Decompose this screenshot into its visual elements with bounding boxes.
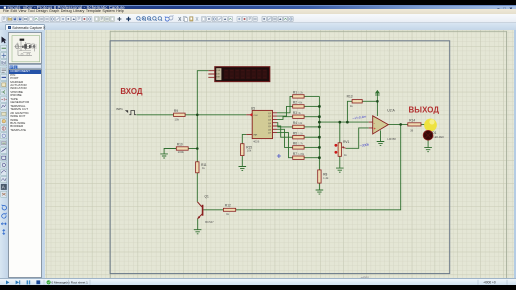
svg-text:1.4k: 1.4k bbox=[323, 176, 329, 180]
wire R3 to summing bus bbox=[304, 115, 319, 117]
transistor Q1 bbox=[197, 194, 214, 223]
ground under R10 bbox=[160, 153, 168, 157]
ground under op-amp bbox=[376, 141, 384, 145]
schematic edit canvas bbox=[45, 30, 516, 279]
resistor R5 bbox=[292, 131, 303, 138]
wire U5 out3 to R3 bbox=[277, 116, 293, 119]
junction bus R4 bbox=[317, 125, 320, 128]
svg-text:R10: R10 bbox=[176, 142, 182, 146]
ground under RV1 bbox=[335, 168, 343, 172]
svg-text:R12: R12 bbox=[224, 203, 230, 207]
paper edge bbox=[110, 31, 506, 279]
svg-text:U2:A: U2:A bbox=[387, 108, 395, 112]
svg-text:ВХОД: ВХОД bbox=[120, 86, 142, 95]
junction bus R5 bbox=[317, 135, 320, 138]
resistor R12 bbox=[223, 203, 235, 215]
junction input node bbox=[196, 113, 199, 116]
svg-text:R4: R4 bbox=[292, 121, 296, 125]
wire summing node to op-amp inverting input bbox=[319, 121, 368, 123]
ground under R8 bbox=[315, 190, 323, 194]
svg-text:A: A bbox=[2, 184, 5, 189]
wire op-amp output bbox=[388, 123, 407, 125]
wire summing bus vertical bbox=[318, 96, 320, 169]
IC U5 bbox=[246, 106, 277, 143]
ground under R15 bbox=[238, 166, 246, 170]
wire R2 to summing bus bbox=[304, 105, 319, 107]
svg-text:R14: R14 bbox=[409, 118, 415, 122]
wire R14 to LED D1 bbox=[420, 124, 427, 131]
wire R11 bottom to Q1 collector bbox=[196, 172, 198, 201]
wire RV1 bottom to ground bbox=[338, 156, 340, 168]
menu bar bbox=[0, 9, 516, 14]
svg-text:R6: R6 bbox=[292, 141, 296, 145]
svg-text:1.1k: 1.1k bbox=[298, 132, 303, 135]
wire op-amp V- to ground bbox=[379, 130, 381, 141]
junction R13 left node bbox=[345, 120, 348, 123]
display U6 (LED bar module) bbox=[208, 66, 269, 81]
wire R13 left leg bbox=[347, 101, 352, 122]
junction bus R2 bbox=[317, 105, 320, 108]
wire R11 top bbox=[196, 148, 198, 161]
junction op-amp output node bbox=[399, 123, 402, 126]
svg-text:39: 39 bbox=[410, 128, 414, 132]
ground under Q1 bbox=[193, 229, 201, 233]
wire R13 right leg to V+ node bbox=[362, 100, 377, 102]
svg-text:INH: INH bbox=[253, 134, 257, 136]
svg-text:CLK: CLK bbox=[216, 70, 221, 72]
generator INP1 bbox=[116, 107, 136, 114]
resistor R9 (input) bbox=[173, 108, 184, 121]
resistor R4 bbox=[292, 121, 303, 128]
origin marker bbox=[276, 154, 280, 158]
wire Q1 base to R12 bbox=[203, 208, 223, 210]
toolbar bbox=[0, 14, 516, 23]
svg-text:R1: R1 bbox=[292, 90, 296, 94]
svg-text:INP1: INP1 bbox=[116, 107, 123, 111]
wire U5 out7 to R7 bbox=[277, 132, 293, 157]
resistor R2 bbox=[292, 100, 303, 107]
junction bus op-amp tap bbox=[317, 120, 320, 123]
resistor R13 (feedback) bbox=[346, 94, 361, 107]
resistor R7 bbox=[292, 151, 304, 158]
svg-text:R3: R3 bbox=[292, 110, 296, 114]
junction bus R3 bbox=[317, 115, 320, 118]
svg-text:CLK: CLK bbox=[253, 115, 258, 117]
junction bus R6 bbox=[317, 146, 320, 149]
op-amp U2:A bbox=[368, 108, 396, 141]
svg-text:DIO: DIO bbox=[216, 73, 220, 75]
svg-text:BC547: BC547 bbox=[205, 219, 214, 223]
svg-text:200k: 200k bbox=[177, 150, 184, 154]
wire LED D1 to ground bbox=[427, 140, 429, 147]
resistor R11 bbox=[195, 161, 206, 172]
wire to display CLK bbox=[197, 70, 208, 114]
svg-text:U5: U5 bbox=[250, 106, 254, 110]
wire Q1 emitter to ground bbox=[196, 218, 198, 229]
left mode toolbar bbox=[0, 30, 8, 279]
power terminal arrow bbox=[375, 90, 380, 96]
svg-text:R9: R9 bbox=[173, 108, 177, 112]
svg-text:LED-RED: LED-RED bbox=[433, 136, 444, 139]
wire R4 to summing bus bbox=[304, 125, 319, 127]
wire R10 left to ground bbox=[164, 148, 176, 153]
wire RV1 top bbox=[338, 122, 340, 143]
svg-text:1.05k: 1.05k bbox=[298, 152, 305, 155]
wire R1 to summing bus bbox=[304, 95, 319, 97]
wire R7 to summing bus bbox=[304, 156, 319, 158]
junction RV1 top node bbox=[338, 120, 341, 123]
svg-text:10k: 10k bbox=[174, 117, 179, 121]
svg-text:R2: R2 bbox=[292, 100, 296, 104]
wire input main line bbox=[136, 113, 246, 115]
wire node to R10/R11 bbox=[196, 114, 198, 148]
wire U5 pin2 to R15 bbox=[242, 134, 246, 143]
status bar bbox=[0, 278, 516, 285]
object selector panel bbox=[8, 30, 45, 279]
svg-text:4026: 4026 bbox=[253, 139, 260, 143]
wire U5 out5 to R5 bbox=[277, 126, 293, 137]
wire U5 out1 to R1 bbox=[277, 96, 293, 112]
window frame right edge bbox=[514, 30, 516, 279]
LED D1 bbox=[423, 118, 444, 140]
svg-text:1.7k: 1.7k bbox=[298, 142, 303, 145]
junction R10/R11 node bbox=[196, 147, 199, 150]
svg-text:R7: R7 bbox=[292, 151, 296, 155]
svg-text:lbl: lbl bbox=[1, 60, 6, 65]
resistor R3 bbox=[292, 110, 303, 117]
svg-text:ВЫХОД: ВЫХОД bbox=[408, 105, 439, 114]
wire R10 right bbox=[188, 147, 197, 149]
wire R5 to summing bus bbox=[304, 136, 319, 138]
svg-text:Q1: Q1 bbox=[204, 194, 208, 198]
wire RV1 wiper to op-amp non-inverting input bbox=[345, 127, 368, 147]
svg-text:1.2k: 1.2k bbox=[298, 91, 303, 94]
wire U5 out4 to R4 bbox=[277, 122, 293, 126]
svg-text:LM358: LM358 bbox=[387, 137, 396, 141]
wire U5 out2 to R2 bbox=[277, 106, 293, 116]
sheet border bbox=[110, 40, 450, 273]
wire R12 to feedback node bbox=[235, 124, 400, 209]
svg-text:+: + bbox=[373, 127, 375, 131]
junction R13 right / V+ node bbox=[376, 100, 379, 103]
ground under LED D1 bbox=[424, 147, 432, 151]
svg-text:D1: D1 bbox=[432, 131, 436, 135]
resistor R8 bbox=[317, 169, 328, 182]
resistor R15 bbox=[240, 143, 252, 155]
wire power arrow to op-amp V+ bbox=[376, 96, 378, 115]
resistor R10 bbox=[176, 142, 188, 154]
resistor R1 bbox=[292, 90, 303, 97]
svg-text:R13: R13 bbox=[346, 94, 352, 98]
window title bar bbox=[0, 5, 516, 10]
resistor R14 bbox=[407, 118, 420, 132]
potentiometer RV1 bbox=[334, 140, 349, 157]
junction bus R7 bbox=[317, 156, 320, 159]
wire R15 to ground bbox=[241, 155, 243, 166]
letterbox bottom bbox=[0, 285, 516, 290]
wire R8 to ground bbox=[318, 183, 320, 190]
wire R6 to summing bus bbox=[304, 146, 319, 148]
svg-text:R5: R5 bbox=[292, 131, 296, 135]
svg-text:10k: 10k bbox=[246, 148, 251, 152]
svg-text:RV1: RV1 bbox=[343, 140, 349, 144]
resistor R6 bbox=[292, 141, 303, 148]
document tab bar bbox=[0, 23, 516, 30]
wire U5 out6 to R6 bbox=[277, 129, 293, 147]
